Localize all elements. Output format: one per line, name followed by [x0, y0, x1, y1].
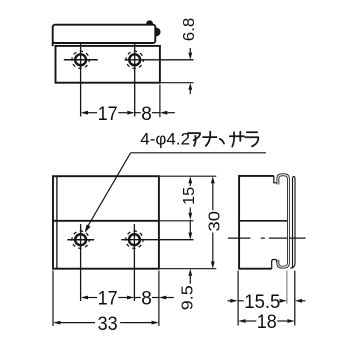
- katakana サ: [230, 132, 244, 147]
- svg-text:18: 18: [257, 312, 277, 333]
- dim 8 front: [134, 297, 140, 299]
- right edge extension down for 17/8/33: [158, 271, 160, 326]
- hole F1: [75, 234, 86, 245]
- inner wall extension down: [286, 271, 288, 304]
- svg-text:6.8: 6.8: [181, 18, 198, 42]
- hole F1 crosshair vertical / extension down: [80, 224, 82, 301]
- extension of plate bottom edge to right: [160, 82, 194, 84]
- hole F1 crosshair horizontal: [67, 239, 94, 241]
- svg-text:8: 8: [141, 104, 152, 125]
- latch hook on cap right edge: [156, 27, 161, 36]
- svg-text:17: 17: [98, 104, 118, 125]
- svg-text:8: 8: [141, 289, 152, 310]
- dim 6.8 vertical dimension line with outside arrows: [189, 48, 191, 53]
- bottom edge extension right: [159, 268, 216, 270]
- top view cap outline: [53, 25, 156, 43]
- hole T2: [129, 54, 140, 65]
- dim 9.5 bottom arrow and text: [188, 269, 192, 276]
- plate right edge extension down: [159, 85, 161, 118]
- top view base plate outline: [56, 46, 160, 83]
- folded sheet band (cap cross-section): [278, 175, 289, 267]
- hole T1 crosshair horizontal: [64, 59, 98, 61]
- hole T1 crosshair vertical / extension line: [80, 43, 82, 117]
- dim 15.5: outside left arrow: [227, 300, 230, 302]
- rubber bumper on cap top: [146, 20, 153, 25]
- dim 18: [238, 319, 245, 323]
- top notch: [274, 176, 277, 183]
- svg-text:15.5: 15.5: [244, 292, 280, 313]
- svg-text:4-φ4.2: 4-φ4.2: [140, 130, 190, 149]
- center line (dash-dot): [228, 237, 251, 239]
- katakana ラ: [245, 132, 258, 146]
- side view body outline: [239, 176, 274, 269]
- boundary extension right: [159, 220, 194, 222]
- leader underline: [131, 152, 266, 154]
- dim 8 top: segments, shared left arrow, outside right arrow: [135, 112, 141, 114]
- svg-text:17: 17: [98, 289, 118, 310]
- hole T1: [75, 54, 86, 65]
- dim 9.5 top outside arrow: [189, 220, 191, 233]
- top view cap left edge lower segment: [52, 42, 54, 47]
- katakana ナ: [203, 132, 217, 146]
- left edge extension down for 33: [52, 271, 54, 326]
- svg-text:9.5: 9.5: [179, 285, 196, 310]
- outer wall extension down: [294, 271, 296, 326]
- leader diagonal to hole F1: [88, 153, 131, 227]
- front view outer outline: [53, 176, 159, 269]
- dim 17 top: line segments and arrows: [81, 111, 88, 115]
- top edge extension right: [159, 175, 216, 177]
- hole T2 crosshair vertical / extension line: [134, 43, 136, 117]
- leader arrowhead: [85, 224, 91, 232]
- front view inner left edge line: [56, 176, 58, 269]
- hole F2 crosshair horizontal / extension to 9.5 dim: [121, 239, 193, 241]
- dim 15.5: outside right arrow at outer wall: [295, 299, 302, 303]
- left edge extension down: [237, 271, 239, 326]
- svg-text:33: 33: [98, 314, 118, 335]
- ideographic comma 、: [220, 139, 224, 144]
- hole T2 crosshair horizontal / extension to 6.8 dim: [125, 59, 194, 61]
- katakana ア: [188, 132, 258, 147]
- hole F2 crosshair vertical / extension down: [133, 224, 135, 301]
- dim 33: [53, 321, 60, 325]
- dim 15.5: inner right arrow: [280, 299, 287, 303]
- dim 15 vertical: [188, 176, 192, 183]
- svg-text:15: 15: [181, 187, 198, 205]
- svg-text:30: 30: [207, 211, 224, 232]
- bottom notch / hook tip outline: [272, 260, 277, 269]
- front view step/boundary line: [53, 220, 159, 222]
- outer wall double line: [290, 176, 295, 268]
- dim 17 front: [81, 296, 88, 300]
- side view step/boundary line: [238, 220, 287, 222]
- dim 30 vertical: [211, 176, 215, 183]
- hole F2: [129, 234, 140, 245]
